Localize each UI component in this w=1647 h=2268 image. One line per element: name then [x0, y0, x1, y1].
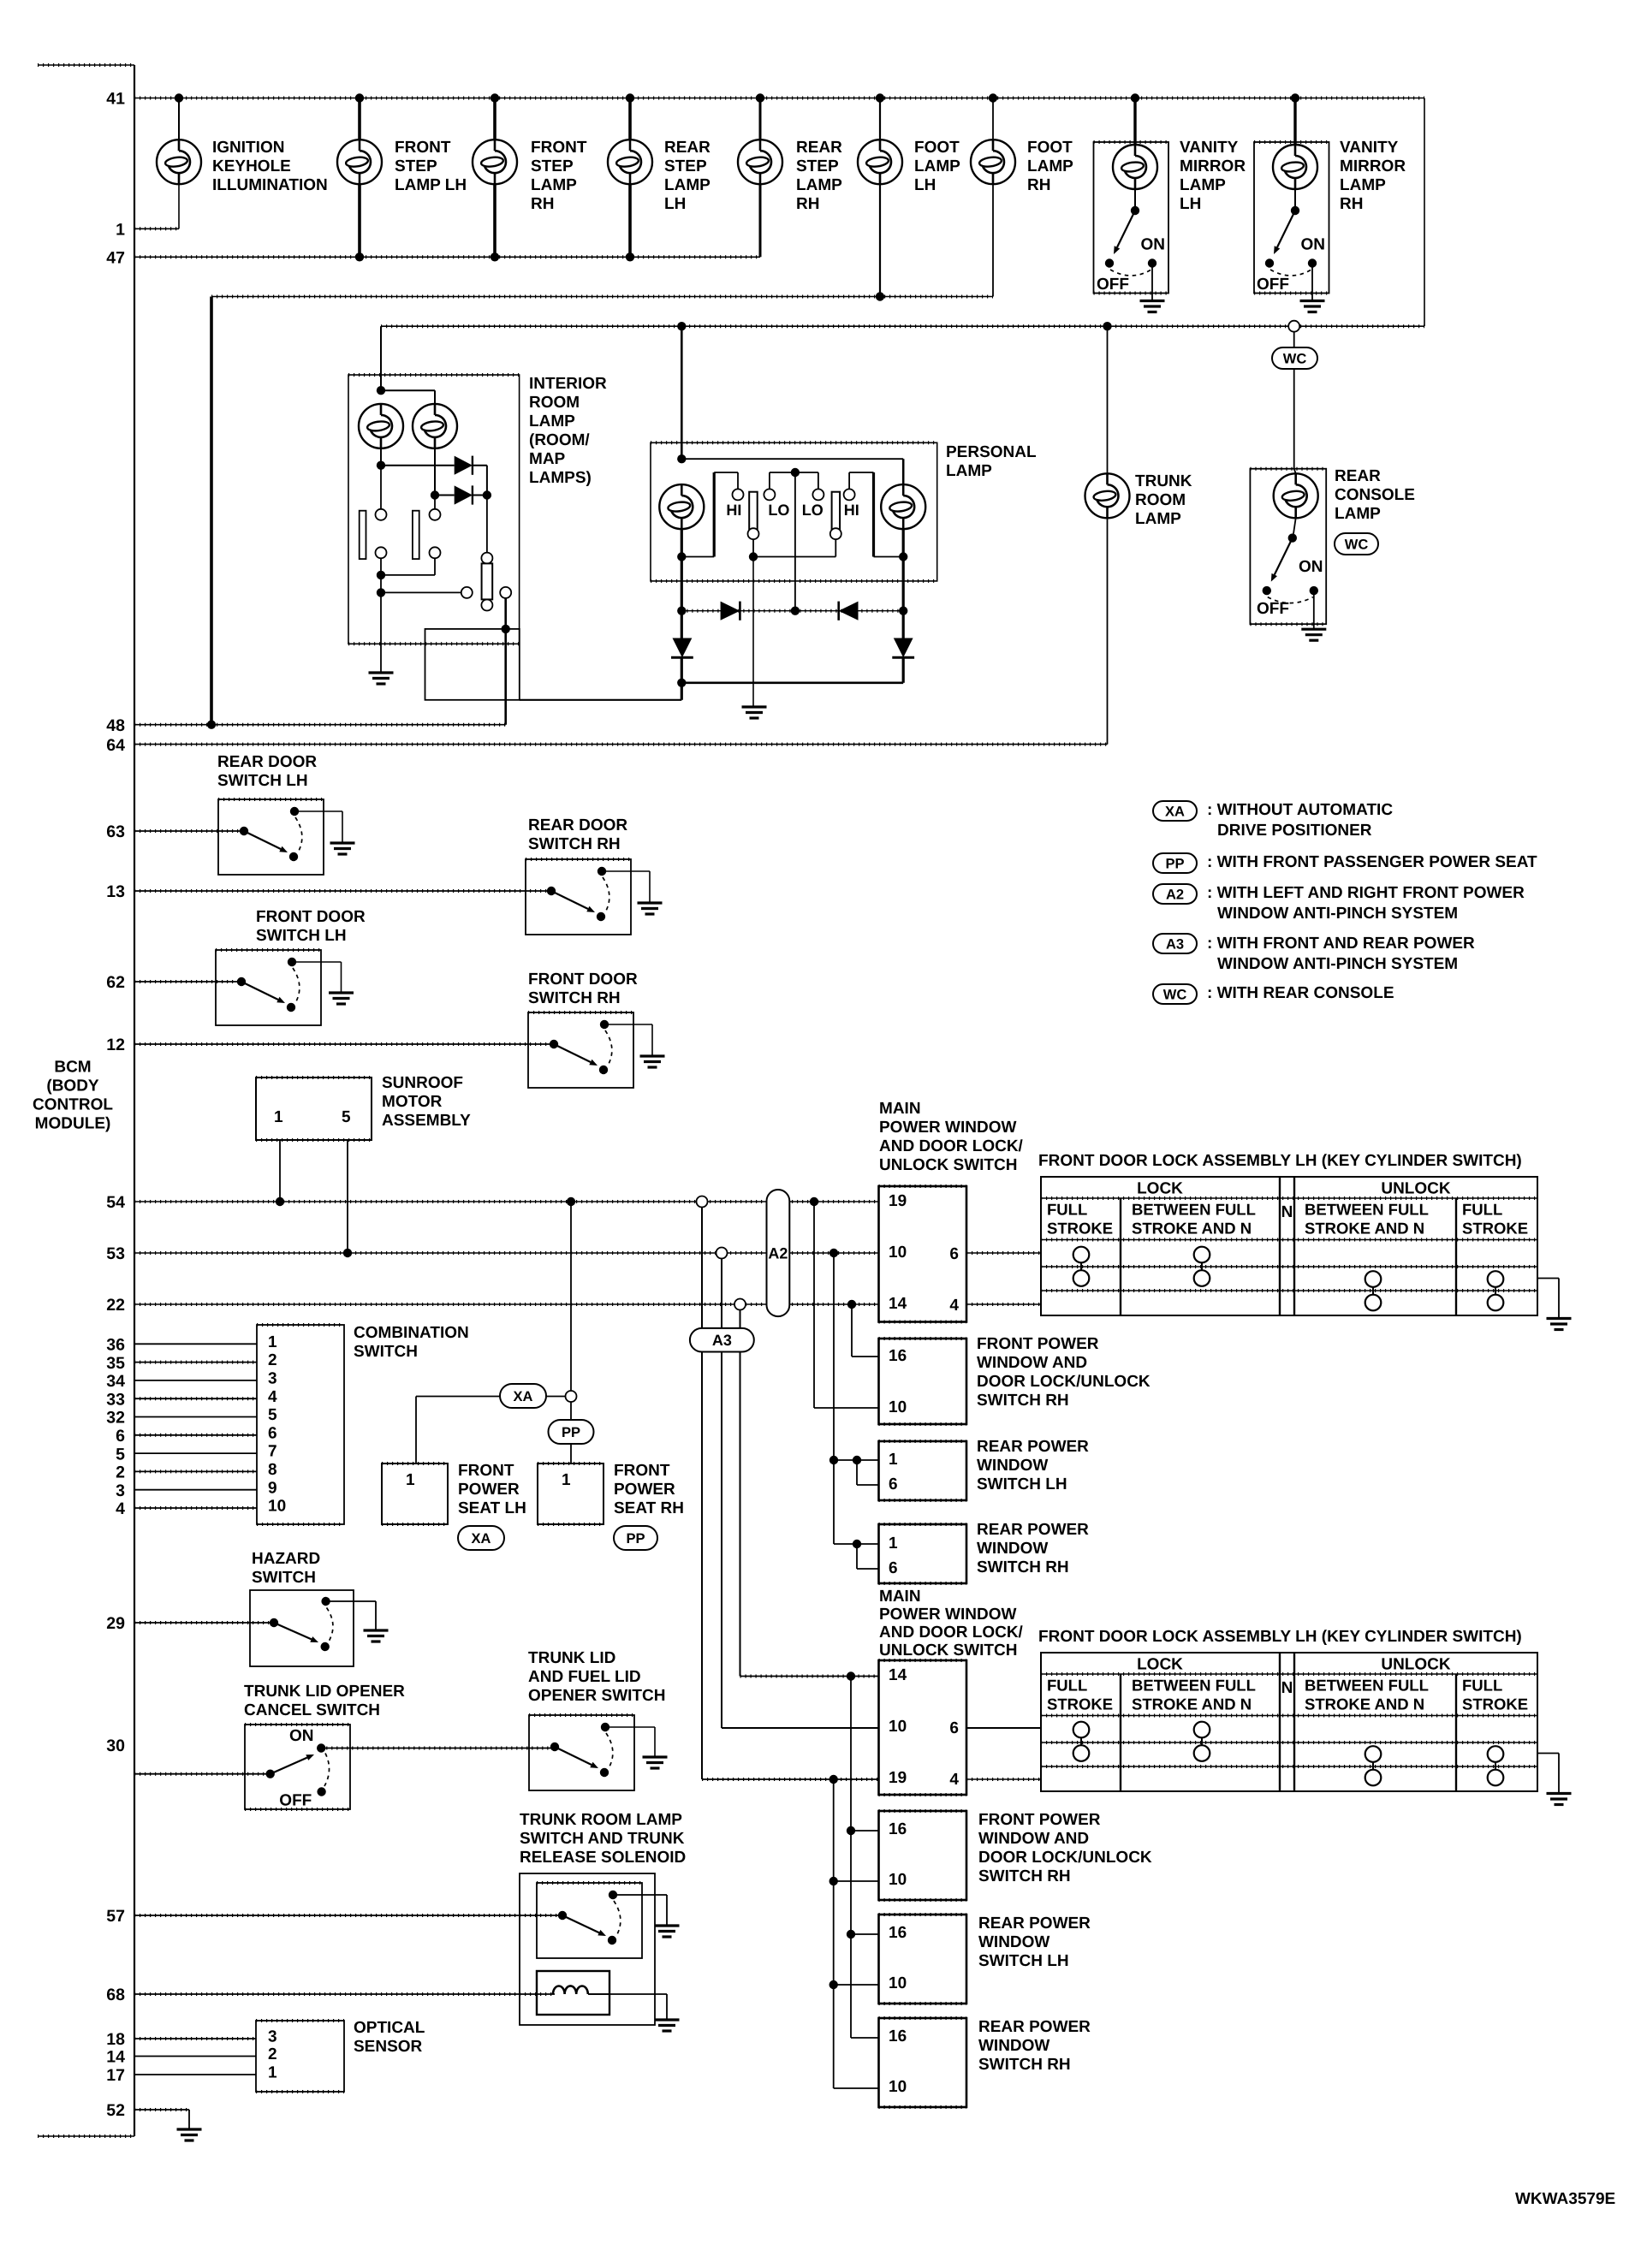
svg-text:3: 3 — [268, 2028, 277, 2046]
svg-text:ON: ON — [1141, 236, 1166, 254]
svg-text:: WITH FRONT AND REAR POWER: : WITH FRONT AND REAR POWER — [1207, 935, 1475, 953]
combination switch — [257, 1325, 344, 1524]
svg-text:TRUNK ROOM LAMP: TRUNK ROOM LAMP — [520, 1811, 682, 1829]
svg-text:A3: A3 — [712, 1332, 732, 1349]
svg-text:17: 17 — [106, 2066, 125, 2085]
svg-text:LAMP: LAMP — [664, 176, 711, 194]
svg-text:OFF: OFF — [1097, 276, 1129, 294]
svg-text:1: 1 — [274, 1108, 283, 1126]
node line53 down — [829, 1249, 838, 1257]
vanity mirror lamp LH box — [1094, 142, 1169, 294]
svg-text:LO: LO — [768, 502, 789, 519]
svg-text:N: N — [1281, 1203, 1293, 1221]
svg-text:6: 6 — [949, 1245, 959, 1263]
svg-text:REAR POWER: REAR POWER — [978, 2018, 1091, 2036]
svg-text:6: 6 — [949, 1719, 959, 1737]
svg-text:STEP: STEP — [796, 157, 839, 175]
svg-text:UNLOCK SWITCH: UNLOCK SWITCH — [879, 1156, 1017, 1174]
svg-text:A3: A3 — [1166, 936, 1184, 952]
svg-text:FRONT: FRONT — [614, 1462, 670, 1480]
right edge of top loop — [1424, 98, 1425, 327]
svg-text:TRUNK: TRUNK — [1135, 472, 1192, 490]
optical sensor — [256, 2021, 344, 2092]
svg-text:REAR DOOR: REAR DOOR — [217, 753, 317, 771]
svg-text:4: 4 — [268, 1388, 277, 1406]
svg-text:16: 16 — [889, 1820, 907, 1838]
svg-text:WINDOW: WINDOW — [977, 1457, 1048, 1475]
svg-text:AND DOOR LOCK/: AND DOOR LOCK/ — [879, 1624, 1024, 1642]
svg-text:OFF: OFF — [1257, 276, 1289, 294]
svg-text:INTERIOR: INTERIOR — [529, 375, 607, 393]
svg-text:6: 6 — [889, 1475, 898, 1493]
svg-text:FRONT POWER: FRONT POWER — [978, 1811, 1101, 1829]
rear console lamp box — [1250, 469, 1326, 625]
bus 381 (interior feed) — [381, 325, 1424, 327]
svg-text:ROOM: ROOM — [1135, 491, 1186, 509]
svg-text:STROKE AND N: STROKE AND N — [1305, 1695, 1424, 1713]
ground — [329, 993, 354, 1004]
svg-text:FRONT: FRONT — [395, 139, 451, 157]
wire pin 1 — [134, 228, 179, 229]
big diode down LH — [681, 611, 683, 638]
ground — [1140, 301, 1165, 312]
svg-text:SENSOR: SENSOR — [354, 2038, 423, 2056]
svg-text:RH: RH — [1027, 176, 1050, 194]
vanity LH ground — [1151, 264, 1153, 301]
svg-text:SWITCH LH: SWITCH LH — [978, 1952, 1069, 1970]
interior room lamp box — [348, 375, 520, 644]
personal lamp returns — [681, 529, 683, 611]
svg-text:PP: PP — [626, 1531, 645, 1547]
front step lamp RH — [491, 93, 499, 102]
svg-text:DOOR LOCK/UNLOCK: DOOR LOCK/UNLOCK — [978, 1849, 1152, 1867]
BCM (body control module) left spine — [38, 64, 134, 66]
svg-text:7: 7 — [268, 1443, 277, 1461]
interior room lamp bulb 2 — [434, 390, 436, 404]
svg-text:STEP: STEP — [395, 157, 437, 175]
bus 41 — [134, 98, 1424, 99]
svg-text:FRONT POWER: FRONT POWER — [977, 1335, 1099, 1353]
svg-text:SWITCH LH: SWITCH LH — [217, 772, 308, 790]
svg-text:3: 3 — [268, 1370, 277, 1388]
svg-text:47: 47 — [106, 249, 125, 268]
svg-text:UNLOCK: UNLOCK — [1381, 1180, 1451, 1198]
svg-text:FOOT: FOOT — [914, 139, 960, 157]
rear console switch — [1288, 533, 1297, 542]
svg-text:SWITCH LH: SWITCH LH — [977, 1475, 1067, 1493]
svg-text:OPENER SWITCH: OPENER SWITCH — [528, 1687, 665, 1705]
svg-text:(BODY: (BODY — [46, 1077, 99, 1095]
svg-text:RH: RH — [1340, 195, 1363, 213]
svg-text:LOCK: LOCK — [1137, 1180, 1183, 1198]
svg-text:STROKE: STROKE — [1047, 1220, 1113, 1238]
svg-text:14: 14 — [106, 2048, 125, 2067]
svg-text:6: 6 — [116, 1427, 125, 1446]
svg-text:4: 4 — [116, 1499, 125, 1518]
rear power window switch LH (lower) — [879, 1915, 967, 2004]
svg-text:XA: XA — [1165, 804, 1185, 819]
svg-text:LAMP: LAMP — [1340, 176, 1386, 194]
svg-text:4: 4 — [949, 1771, 959, 1789]
svg-text:10: 10 — [889, 1244, 907, 1262]
svg-text:BETWEEN FULL: BETWEEN FULL — [1305, 1677, 1429, 1695]
svg-text:COMBINATION: COMBINATION — [354, 1324, 469, 1342]
svg-text:3: 3 — [116, 1481, 125, 1500]
pin4 wire to key cylinder table — [966, 1303, 1041, 1305]
svg-text:WINDOW ANTI-PINCH SYSTEM: WINDOW ANTI-PINCH SYSTEM — [1217, 905, 1458, 923]
svg-text:10: 10 — [889, 1718, 907, 1736]
lamp2 switch — [434, 496, 436, 509]
svg-text:ASSEMBLY: ASSEMBLY — [382, 1112, 471, 1130]
ground — [742, 707, 767, 718]
svg-text:LO: LO — [802, 502, 823, 519]
svg-text:35: 35 — [106, 1354, 125, 1373]
svg-text:MAP: MAP — [529, 450, 566, 468]
svg-text:FULL: FULL — [1047, 1201, 1087, 1219]
svg-text:16: 16 — [889, 1924, 907, 1942]
bus (rear step RH / foot lamps return) — [211, 296, 993, 298]
svg-text:DRIVE POSITIONER: DRIVE POSITIONER — [1217, 822, 1372, 840]
svg-text:ON: ON — [1301, 236, 1326, 254]
ground — [640, 1056, 665, 1067]
svg-text:WC: WC — [1345, 537, 1369, 552]
svg-text:POWER WINDOW: POWER WINDOW — [879, 1119, 1016, 1137]
svg-text:STROKE: STROKE — [1047, 1695, 1113, 1713]
svg-text:WKWA3579E: WKWA3579E — [1515, 2190, 1615, 2208]
line 64 — [134, 744, 1108, 745]
svg-text:STROKE: STROKE — [1462, 1220, 1528, 1238]
foot lamp LH — [876, 93, 884, 102]
legend A2 — [1153, 884, 1197, 904]
svg-text:POWER: POWER — [614, 1481, 675, 1499]
svg-text:LAMP: LAMP — [1335, 505, 1381, 523]
svg-text:LH: LH — [1180, 195, 1201, 213]
front power seat LH — [382, 1464, 448, 1524]
svg-text:64: 64 — [106, 736, 125, 755]
svg-text:5: 5 — [268, 1406, 277, 1424]
svg-text:POWER: POWER — [458, 1481, 520, 1499]
svg-text:STROKE AND N: STROKE AND N — [1305, 1220, 1424, 1238]
svg-text:CONSOLE: CONSOLE — [1335, 486, 1415, 504]
svg-text:FRONT: FRONT — [531, 139, 587, 157]
node line22 to pin16 — [847, 1300, 856, 1309]
svg-text:62: 62 — [106, 973, 125, 992]
svg-text:SEAT RH: SEAT RH — [614, 1499, 684, 1517]
svg-text:WINDOW AND: WINDOW AND — [978, 1830, 1089, 1848]
connector sub-box — [425, 629, 520, 700]
svg-text:MIRROR: MIRROR — [1340, 157, 1406, 175]
svg-text:SWITCH: SWITCH — [354, 1343, 418, 1361]
svg-text:TRUNK LID: TRUNK LID — [528, 1649, 615, 1667]
bottom return bus — [677, 679, 686, 687]
svg-text:REAR: REAR — [1335, 467, 1381, 485]
personal center line — [794, 472, 796, 611]
line 53 — [134, 1252, 879, 1254]
svg-text:2: 2 — [268, 2045, 277, 2063]
svg-text:6: 6 — [889, 1559, 898, 1577]
svg-text:MAIN: MAIN — [879, 1588, 921, 1606]
svg-text:: WITHOUT AUTOMATIC: : WITHOUT AUTOMATIC — [1207, 801, 1393, 819]
vanity LH switch — [1131, 206, 1139, 215]
svg-text:68: 68 — [106, 1986, 125, 2004]
legend PP — [1153, 853, 1197, 873]
svg-text:10: 10 — [889, 2078, 907, 2096]
svg-text:LAMP: LAMP — [1180, 176, 1226, 194]
vanity RH ground — [1311, 264, 1313, 301]
svg-text:HAZARD: HAZARD — [252, 1550, 320, 1568]
personal lamp bulb RH — [881, 484, 925, 529]
A3 connector capsule — [690, 1328, 754, 1352]
svg-text:UNLOCK SWITCH: UNLOCK SWITCH — [879, 1642, 1017, 1659]
svg-text:BETWEEN FULL: BETWEEN FULL — [1132, 1201, 1256, 1219]
svg-text:FRONT DOOR LOCK ASSEMBLY LH (K: FRONT DOOR LOCK ASSEMBLY LH (KEY CYLINDE… — [1038, 1152, 1522, 1170]
svg-text:OFF: OFF — [1257, 600, 1289, 618]
svg-text:LOCK: LOCK — [1137, 1656, 1183, 1674]
svg-text:PP: PP — [562, 1425, 580, 1440]
svg-text:19: 19 — [889, 1192, 907, 1210]
svg-text:REAR POWER: REAR POWER — [977, 1438, 1089, 1456]
svg-text:VANITY: VANITY — [1340, 139, 1399, 157]
svg-text:REAR: REAR — [664, 139, 711, 157]
svg-text:STROKE AND N: STROKE AND N — [1132, 1695, 1252, 1713]
svg-text:2: 2 — [268, 1351, 277, 1369]
svg-text:1: 1 — [406, 1471, 415, 1489]
svg-text:HI: HI — [726, 502, 741, 519]
svg-text:WINDOW: WINDOW — [978, 2037, 1049, 2055]
pin6/pin4 wires to lower key table — [966, 1727, 1041, 1729]
personal bottom connections — [677, 552, 686, 561]
personal switch LH — [737, 472, 739, 489]
personal lamp box — [651, 442, 937, 581]
legend XA — [1153, 801, 1197, 821]
svg-text:WC: WC — [1283, 351, 1307, 366]
svg-text:10: 10 — [889, 1974, 907, 1992]
svg-text:36: 36 — [106, 1336, 125, 1355]
svg-text:REAR: REAR — [796, 139, 842, 157]
svg-text:FRONT DOOR: FRONT DOOR — [256, 908, 366, 926]
svg-text:A2: A2 — [768, 1245, 788, 1262]
A2 connector capsule — [697, 1196, 708, 1208]
svg-text:RH: RH — [796, 195, 819, 213]
node line54 to pin10 lower — [810, 1197, 818, 1206]
table ground — [1537, 1278, 1559, 1279]
svg-text:IGNITION: IGNITION — [212, 139, 284, 157]
svg-text:REAR POWER: REAR POWER — [978, 1915, 1091, 1933]
svg-text:SWITCH RH: SWITCH RH — [978, 1867, 1071, 1885]
front power window and door lock/unlock switch RH (upper) — [879, 1339, 967, 1424]
rear power window switch RH (lower) — [879, 2018, 967, 2107]
svg-text:1: 1 — [889, 1535, 898, 1553]
svg-text:FULL: FULL — [1047, 1677, 1087, 1695]
svg-text:1: 1 — [268, 2064, 277, 2082]
svg-text:: WITH REAR CONSOLE: : WITH REAR CONSOLE — [1207, 984, 1394, 1002]
svg-text:52: 52 — [106, 2101, 125, 2120]
ground — [1301, 629, 1326, 640]
svg-text:: WITH LEFT AND RIGHT FRONT PO: : WITH LEFT AND RIGHT FRONT POWER — [1207, 884, 1525, 902]
svg-text:SUNROOF: SUNROOF — [382, 1074, 463, 1092]
svg-text:PP: PP — [1165, 856, 1184, 871]
svg-text:(ROOM/: (ROOM/ — [529, 431, 590, 449]
svg-text:WC: WC — [1163, 987, 1187, 1002]
svg-text:MAIN: MAIN — [879, 1100, 921, 1118]
WC connector from bus — [1288, 321, 1299, 332]
svg-text:BCM: BCM — [54, 1058, 91, 1076]
ground — [1547, 1794, 1572, 1805]
line 48 — [134, 724, 506, 726]
verticals feeding lower boxes — [850, 1677, 852, 2039]
legend A3 — [1153, 934, 1197, 953]
svg-text:29: 29 — [106, 1614, 125, 1633]
interior diode 2 — [434, 448, 436, 496]
svg-text:LH: LH — [914, 176, 936, 194]
svg-text:FOOT: FOOT — [1027, 139, 1073, 157]
svg-text:2: 2 — [116, 1464, 125, 1482]
rear power window switch LH (upper) — [879, 1441, 967, 1500]
vanity RH switch — [1291, 206, 1299, 215]
svg-text:TRUNK LID OPENER: TRUNK LID OPENER — [244, 1683, 405, 1701]
svg-text:AND FUEL LID: AND FUEL LID — [528, 1668, 641, 1686]
svg-text:MODULE): MODULE) — [35, 1114, 111, 1132]
svg-text:33: 33 — [106, 1390, 125, 1409]
svg-text:LAMP: LAMP — [796, 176, 842, 194]
svg-text:SWITCH AND TRUNK: SWITCH AND TRUNK — [520, 1830, 685, 1848]
svg-text:LAMP: LAMP — [531, 176, 577, 194]
svg-text:SEAT LH: SEAT LH — [458, 1499, 526, 1517]
interior lamp switch contacts — [380, 448, 382, 509]
svg-text:POWER WINDOW: POWER WINDOW — [879, 1606, 1016, 1624]
svg-text:N: N — [1281, 1679, 1293, 1697]
svg-text:ILLUMINATION: ILLUMINATION — [212, 176, 328, 194]
XA/PP power seat branch — [567, 1197, 575, 1206]
svg-text:LAMP: LAMP — [1027, 157, 1073, 175]
svg-text:6: 6 — [268, 1424, 277, 1442]
svg-text:WINDOW AND: WINDOW AND — [977, 1354, 1087, 1372]
svg-text:SWITCH RH: SWITCH RH — [528, 989, 621, 1007]
svg-text:LAMP LH: LAMP LH — [395, 176, 467, 194]
ground — [643, 1757, 668, 1768]
line 22 — [134, 1303, 879, 1305]
svg-text:REAR DOOR: REAR DOOR — [528, 816, 627, 834]
svg-text:RH: RH — [531, 195, 554, 213]
svg-text:FULL: FULL — [1462, 1201, 1502, 1219]
svg-text:57: 57 — [106, 1907, 125, 1926]
svg-text:KEYHOLE: KEYHOLE — [212, 157, 291, 175]
svg-text:REAR POWER: REAR POWER — [977, 1521, 1089, 1539]
svg-text:LAMP: LAMP — [946, 462, 992, 480]
svg-text:48: 48 — [106, 716, 125, 735]
svg-text:14: 14 — [889, 1295, 907, 1313]
diode left — [839, 602, 859, 620]
svg-text:1: 1 — [889, 1451, 898, 1469]
svg-text:FRONT DOOR LOCK ASSEMBLY LH (K: FRONT DOOR LOCK ASSEMBLY LH (KEY CYLINDE… — [1038, 1628, 1522, 1646]
front power seat RH — [538, 1464, 604, 1524]
interior feed — [380, 326, 382, 390]
svg-text:PERSONAL: PERSONAL — [946, 443, 1037, 461]
svg-text:SWITCH RH: SWITCH RH — [978, 2056, 1071, 2074]
svg-text:BETWEEN FULL: BETWEEN FULL — [1132, 1677, 1256, 1695]
svg-text:8: 8 — [268, 1461, 277, 1479]
svg-text:WINDOW ANTI-PINCH SYSTEM: WINDOW ANTI-PINCH SYSTEM — [1217, 955, 1458, 973]
svg-text:22: 22 — [106, 1296, 125, 1315]
svg-text:1: 1 — [116, 221, 125, 240]
rear step lamp RH — [756, 93, 764, 102]
vanity mirror lamp RH box — [1254, 142, 1329, 294]
svg-text:STEP: STEP — [531, 157, 574, 175]
interior room lamp bulb 1 — [359, 404, 403, 448]
svg-text:MOTOR: MOTOR — [382, 1093, 443, 1111]
bus 47 — [134, 256, 760, 258]
svg-text:BETWEEN FULL: BETWEEN FULL — [1305, 1201, 1429, 1219]
svg-text:LAMPS): LAMPS) — [529, 469, 592, 487]
svg-text:30: 30 — [106, 1737, 125, 1755]
ground — [638, 903, 663, 914]
svg-text:SWITCH LH: SWITCH LH — [256, 927, 347, 945]
personal switch RH — [812, 489, 823, 500]
personal ground line — [752, 557, 754, 707]
front power window and door lock/unlock switch RH (lower) — [879, 1811, 967, 1900]
svg-text:XA: XA — [514, 1389, 533, 1404]
svg-text:LAMP: LAMP — [1135, 510, 1181, 528]
pin 52 ground — [134, 2109, 189, 2111]
legend WC — [1153, 984, 1197, 1004]
interior third leg — [486, 496, 488, 553]
svg-text:OFF: OFF — [279, 1792, 312, 1810]
line 54 — [134, 1201, 879, 1202]
svg-text:A2: A2 — [1166, 887, 1184, 902]
svg-text:RELEASE SOLENOID: RELEASE SOLENOID — [520, 1849, 686, 1867]
svg-text:CONTROL: CONTROL — [33, 1095, 113, 1113]
table ground — [1537, 1753, 1559, 1754]
svg-text:STROKE: STROKE — [1462, 1695, 1528, 1713]
svg-text:63: 63 — [106, 822, 125, 841]
ground — [1300, 301, 1325, 312]
svg-text:STEP: STEP — [664, 157, 707, 175]
svg-text:FRONT: FRONT — [458, 1462, 514, 1480]
svg-text:16: 16 — [889, 2028, 907, 2045]
svg-text:LH: LH — [664, 195, 686, 213]
svg-text:12: 12 — [106, 1036, 125, 1054]
wire to trunk lid and fuel lid opener switch — [321, 1748, 554, 1749]
svg-text:1: 1 — [268, 1333, 277, 1351]
svg-text:FRONT DOOR: FRONT DOOR — [528, 971, 638, 989]
svg-text:HI: HI — [844, 502, 859, 519]
svg-text:DOOR LOCK/UNLOCK: DOOR LOCK/UNLOCK — [977, 1373, 1151, 1391]
svg-text:5: 5 — [116, 1445, 125, 1464]
svg-text:10: 10 — [268, 1498, 286, 1516]
interior door contact — [381, 591, 461, 593]
svg-text:53: 53 — [106, 1244, 125, 1263]
WC oval — [1272, 347, 1317, 369]
svg-text:FULL: FULL — [1462, 1677, 1502, 1695]
svg-text:14: 14 — [889, 1666, 907, 1684]
diode right — [721, 602, 740, 620]
ground — [369, 673, 394, 684]
svg-text:WINDOW: WINDOW — [978, 1933, 1049, 1951]
svg-text:AND DOOR LOCK/: AND DOOR LOCK/ — [879, 1137, 1024, 1155]
svg-text:SWITCH RH: SWITCH RH — [977, 1392, 1069, 1410]
rear step lamp LH — [626, 93, 634, 102]
ground — [177, 2129, 202, 2140]
svg-text:ON: ON — [289, 1727, 314, 1745]
svg-text:ROOM: ROOM — [529, 394, 580, 412]
interior diode 1 — [380, 448, 382, 466]
front step lamp LH — [355, 93, 364, 102]
svg-text:WINDOW: WINDOW — [977, 1540, 1048, 1558]
rear power window switch RH (upper) — [879, 1524, 967, 1583]
svg-text:LAMP: LAMP — [914, 157, 960, 175]
svg-text:SWITCH RH: SWITCH RH — [977, 1559, 1069, 1576]
ground — [1547, 1319, 1572, 1330]
